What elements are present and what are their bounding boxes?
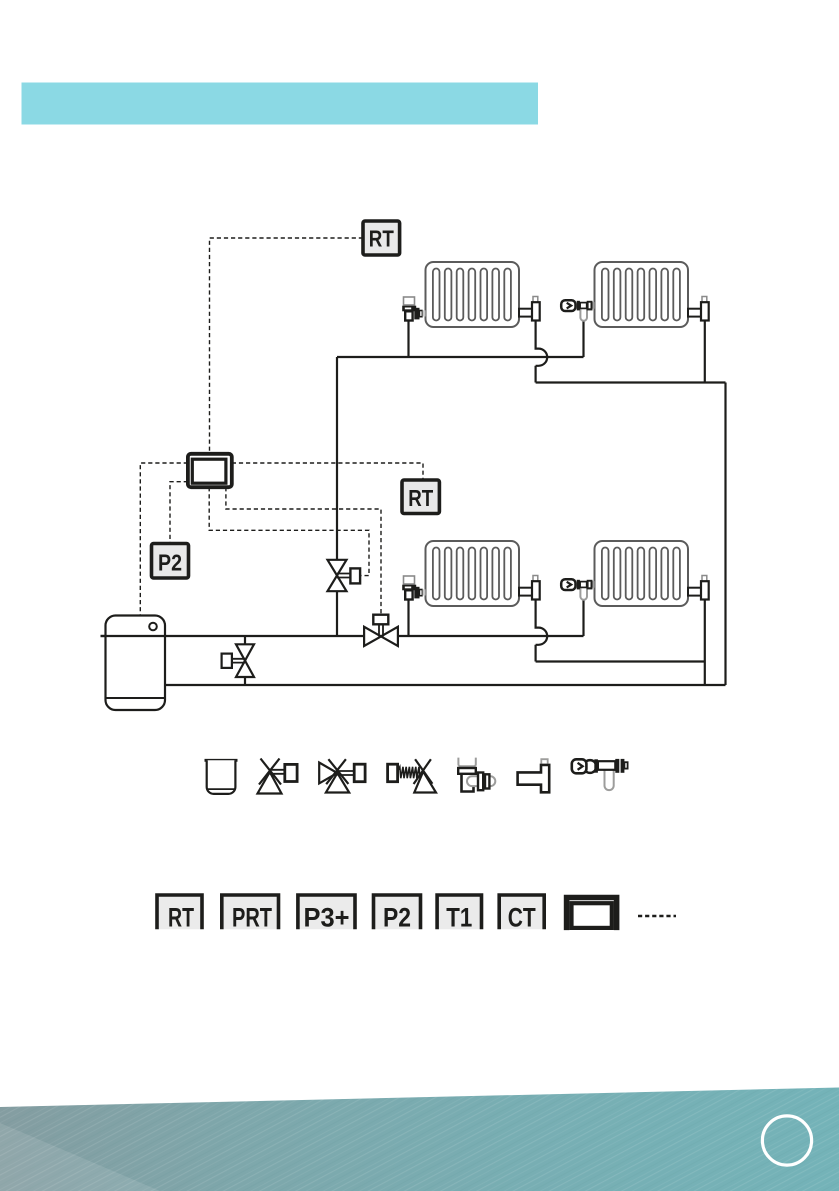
- wire: dashed controller to P2: [170, 482, 188, 544]
- footer circle badge: [762, 1116, 811, 1165]
- svg-text:PRT: PRT: [232, 903, 272, 933]
- legend label box RT: [157, 895, 202, 933]
- svg-text:RT: RT: [168, 903, 194, 933]
- pipe: lower return link horizontal: [536, 660, 705, 662]
- radiator R3: [426, 541, 520, 606]
- svg-text:RT: RT: [369, 226, 394, 252]
- svg-text:P2: P2: [383, 903, 411, 933]
- label box P2: [152, 544, 189, 579]
- wire: dashed controller to 3-way valve actuator: [226, 487, 381, 615]
- svg-text:T1: T1: [446, 903, 472, 933]
- bypass balancing valve: [222, 644, 254, 677]
- legend symbol: angle radiator valve body: [458, 758, 495, 792]
- boiler: [101, 616, 166, 711]
- TRV on radiator 1: [402, 297, 425, 321]
- TRV on radiator 3: [402, 576, 425, 600]
- wire: dashed controller to RT2: [232, 463, 423, 480]
- legend symbol: boiler: [205, 760, 238, 794]
- pipe: radiator 2 return drop: [704, 321, 706, 383]
- lockshield on radiator 1: [519, 297, 540, 321]
- legend label box P3+: [298, 895, 355, 933]
- svg-text:RT: RT: [408, 485, 433, 511]
- lockshield on radiator 4: [688, 576, 709, 600]
- pipe: radiator 3 TRV drop: [407, 600, 409, 637]
- 2-way zone valve on riser: [328, 560, 361, 591]
- pipe: riser vertical: [336, 357, 338, 636]
- pipe: radiator 4 return drop: [704, 600, 706, 686]
- legend label box CT: [499, 895, 544, 933]
- pipe: radiator 2 TRV drop: [582, 321, 584, 358]
- legend label box PRT: [222, 895, 279, 933]
- pipe: radiator 1 return drop with bridge: [536, 321, 548, 383]
- pipe: bottom supply horizontal: [101, 635, 584, 637]
- legend dashed wire sample: [638, 915, 676, 918]
- TRV with head on radiator 2: [561, 300, 594, 321]
- radiator R4: [595, 541, 689, 606]
- pipe: top supply horizontal: [337, 356, 584, 358]
- legend symbol: 2-way zone valve with actuator: [258, 759, 298, 794]
- radiator R1: [426, 262, 520, 327]
- legend label box P2: [374, 895, 421, 933]
- wire: dashed controller to 2-way valve actuator: [209, 487, 369, 575]
- legend icon: controller display: [567, 898, 617, 931]
- pipe: top return horizontal: [536, 381, 726, 383]
- wire: dashed controller to boiler: [140, 463, 188, 616]
- radiator R2: [595, 262, 689, 327]
- legend label box T1: [437, 895, 481, 933]
- 3-way mixing valve on bottom supply: [364, 615, 398, 646]
- label box RT1: [363, 221, 400, 255]
- TRV with head on radiator 4: [561, 579, 594, 600]
- banner: [22, 83, 539, 125]
- pipe: right trunk vertical: [724, 383, 726, 686]
- legend symbol: TRV with thermostatic head: [572, 759, 628, 790]
- pipe: radiator 1 TRV drop: [407, 321, 409, 358]
- pipe: bypass vertical: [244, 636, 246, 685]
- pipe: radiator 3 return drop with bridge: [536, 600, 548, 662]
- legend symbol: elbow fitting: [518, 759, 550, 792]
- lockshield on radiator 3: [519, 576, 540, 600]
- lockshield on radiator 2: [688, 297, 709, 321]
- wire: dashed RT1 to controller: [210, 238, 364, 454]
- pipe: radiator 4 TRV drop: [582, 600, 584, 637]
- svg-text:P3+: P3+: [304, 903, 350, 933]
- svg-text:P2: P2: [158, 550, 182, 576]
- legend symbol: 3-way mixing valve with actuator: [319, 759, 365, 792]
- svg-text:CT: CT: [508, 903, 536, 933]
- legend symbol: spring safety valve: [388, 759, 436, 792]
- controller unit: [188, 454, 232, 487]
- label box RT2: [402, 480, 439, 514]
- pipe: bottom return horizontal: [165, 684, 726, 686]
- footer band: [0, 1088, 839, 1191]
